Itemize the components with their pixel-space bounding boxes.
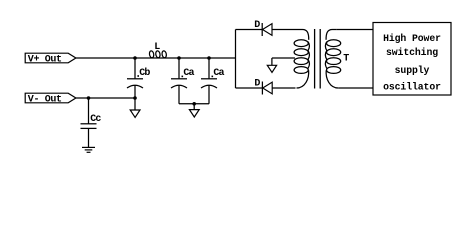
svg-text:High Power: High Power bbox=[383, 33, 441, 44]
wire (Ca bottom bus) bbox=[179, 103, 209, 105]
svg-text:Cc: Cc bbox=[90, 114, 101, 125]
wire (bridge left vertical) bbox=[235, 30, 237, 89]
wire V+ rail bbox=[76, 57, 236, 59]
wire (top diode to transformer) bbox=[272, 29, 298, 31]
transformer T secondary winding bbox=[325, 30, 349, 89]
svg-text:V+ Out: V+ Out bbox=[28, 54, 62, 65]
svg-text:D: D bbox=[254, 79, 260, 90]
svg-text:T: T bbox=[343, 53, 349, 64]
diode D (top) bbox=[254, 20, 272, 36]
svg-text:supply: supply bbox=[395, 65, 430, 76]
svg-text:oscillator: oscillator bbox=[383, 81, 441, 92]
node D (junction V+ / Ca2) bbox=[207, 56, 211, 60]
capacitor Ca (first) bbox=[171, 58, 195, 104]
ground (earth, under Cc) bbox=[82, 147, 95, 152]
svg-text:switching: switching bbox=[386, 47, 438, 58]
flag V+ Out bbox=[25, 53, 76, 65]
node A (junction V+ / Cb) bbox=[133, 56, 137, 60]
wire (centre tap) bbox=[272, 57, 295, 59]
svg-text:Ca: Ca bbox=[213, 68, 224, 79]
capacitor Ca (second) bbox=[201, 58, 225, 104]
wire (bottom branch to diode) bbox=[236, 87, 263, 89]
wire V- rail bbox=[76, 97, 135, 99]
svg-text:Cb: Cb bbox=[139, 67, 150, 79]
oscillator block U1 bbox=[373, 23, 451, 96]
svg-text:Ca: Ca bbox=[183, 68, 194, 79]
wire (secondary bottom to box) bbox=[338, 87, 373, 89]
capacitor Cb bbox=[127, 58, 150, 98]
svg-text:D: D bbox=[254, 20, 260, 31]
ground (triangle, under Ca pair) bbox=[189, 104, 199, 117]
transformer T core bbox=[315, 29, 321, 89]
node F (junction V- / Cc) bbox=[87, 96, 91, 100]
transformer T primary winding bbox=[294, 30, 309, 89]
node B (junction V- / Cb / ground) bbox=[133, 96, 137, 100]
flag V- Out bbox=[25, 93, 76, 105]
node E (junction Ca bus / ground) bbox=[192, 102, 196, 106]
svg-text:L: L bbox=[154, 42, 160, 53]
ground (triangle, under Cb) bbox=[130, 98, 140, 117]
svg-text:V- Out: V- Out bbox=[28, 94, 62, 105]
ground (triangle, centre tap) bbox=[267, 58, 276, 72]
wire (bottom diode to transformer) bbox=[272, 87, 295, 89]
node C (junction V+ / Ca1) bbox=[177, 56, 181, 60]
wire (top branch to diode) bbox=[236, 29, 263, 31]
wire (secondary top to box) bbox=[337, 29, 373, 31]
capacitor Cc bbox=[81, 98, 102, 148]
diode D (bottom) bbox=[254, 79, 272, 95]
inductor L bbox=[149, 42, 167, 58]
